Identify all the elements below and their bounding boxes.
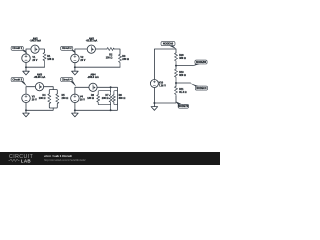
parallel loop C3 top connector [49,90,57,94]
svg-text:230 Ω: 230 Ω [102,97,109,100]
wire chain mid1 [175,66,177,69]
loop B top connector [114,91,118,95]
wire top C4 [75,87,89,94]
wire C3 ammeter to loop [44,87,53,90]
footer bar [0,152,220,165]
svg-text:820 Ω: 820 Ω [179,74,186,77]
svg-text:138 Ω: 138 Ω [47,58,54,61]
ammeter AM3 [35,83,43,91]
svg-text:-86.08 mA: -86.08 mA [34,76,46,79]
svg-text:230 Ω: 230 Ω [62,97,69,100]
wire chain mid2 [175,83,177,86]
svg-text:-83.91 mA: -83.91 mA [86,40,98,43]
voltage source V1 [22,54,31,63]
stub node B [176,65,194,67]
flag Circuit 1 [11,46,28,54]
ammeter AM2 [87,45,95,53]
ground C1 [23,67,30,75]
wire bottom C1 [26,63,45,67]
junction node C [175,82,177,84]
svg-text:130 Ω: 130 Ω [87,97,94,100]
svg-text:20 V: 20 V [80,98,85,101]
svg-text:20 V: 20 V [32,59,37,62]
junction C4 top [110,86,112,88]
junction C1 bottom [25,66,27,68]
wire top C5 [154,49,176,79]
svg-text:-286.0 mA: -286.0 mA [87,76,99,79]
svg-text:330 Ω: 330 Ω [179,57,186,60]
flag NODEA0 [161,42,176,50]
junction C4 mid-bottom [110,109,112,111]
flag Circuit 3 [11,78,27,87]
resistor R5 [56,94,59,104]
svg-text:elliott / Lab 1 Circuit: elliott / Lab 1 Circuit [44,154,72,158]
voltage source V3 [22,94,31,103]
resistor R2 horizontal [107,48,114,51]
svg-text:330 Ω: 330 Ω [119,97,126,100]
svg-text:130 Ω: 130 Ω [106,57,113,60]
C4 mid rail with resistor R7 [109,87,112,110]
ground C3 [23,110,30,117]
junction C4 bottom [74,109,76,111]
wire bottom C3 [26,103,53,110]
svg-text:NODEA0: NODEA0 [163,43,174,46]
wire bottom C2 [75,63,120,67]
CircuitLab logo [9,154,34,164]
junction C3 bottom [25,109,27,111]
svg-text:Circuit 2: Circuit 2 [62,47,72,50]
flag Circuit 4 [61,78,77,87]
wire top C2 [75,49,87,54]
resistor R1 [43,53,46,68]
wire bottom C4 [75,103,118,111]
svg-text:20 V: 20 V [80,59,85,62]
svg-text:NODEC0: NODEC0 [196,87,207,90]
svg-text:81.4 Ω: 81.4 Ω [179,91,186,94]
voltage source V2 [71,54,80,63]
wire C4 top to feed [97,87,117,90]
svg-text:NODEB0: NODEB0 [196,61,207,64]
voltage source V10 [150,80,158,88]
ground C4 [72,110,79,117]
svg-text:-140.0 mA: -140.0 mA [30,40,42,43]
svg-text:7.36 V: 7.36 V [159,84,166,87]
junction C2 bottom [74,66,76,68]
junction C5 bottom [153,102,155,104]
junction node B [175,65,177,67]
wire C1 ammeter to R1 [39,49,44,53]
ammeter AM4 [89,83,97,91]
wire C2 ammeter to R2 [96,48,107,50]
resistor R11 [175,86,178,96]
ground C2 [72,67,79,75]
wire top C3 [26,87,35,94]
resistor R3 [119,54,122,67]
wire C2 R2 to corner [114,49,120,54]
flag Circuit 2 [61,46,77,54]
svg-text:Circuit 3: Circuit 3 [12,78,22,81]
C4 right feed rail [116,91,118,105]
loop B bottom connector [114,102,118,105]
svg-text:NODET0: NODET0 [178,105,189,108]
resistor R20 [175,53,178,66]
resistor R8 [112,95,115,103]
wire bottom C5 [154,88,176,103]
svg-text:Circuit 1: Circuit 1 [12,47,22,50]
text labels [30,37,99,79]
svg-text:LAB: LAB [21,159,32,164]
flag NODET0 [176,101,189,108]
flag NODEB0 [193,60,207,66]
svg-text:20 V: 20 V [32,98,37,101]
resistor R4 [48,94,51,104]
voltage source V4 [71,94,80,103]
loop A top connector [98,91,110,95]
ammeter AM1 [31,45,39,53]
resistor R10 [175,69,178,83]
svg-text:Circuit 4: Circuit 4 [62,78,72,81]
wire top C1 [26,49,31,54]
flag texts [12,43,207,109]
loop A bottom connector [98,102,110,105]
svg-text:http://circuitlab.com/c7e2e99n: http://circuitlab.com/c7e2e99nza32 [44,158,86,162]
stub node C [176,82,191,84]
resistor R6 [97,95,100,103]
svg-text:130 Ω: 130 Ω [39,97,46,100]
parallel loop C3 bottom connector [49,104,57,108]
svg-text:230 Ω: 230 Ω [122,58,129,61]
ground C5 [151,103,158,110]
flag NODEC0 [190,83,208,90]
